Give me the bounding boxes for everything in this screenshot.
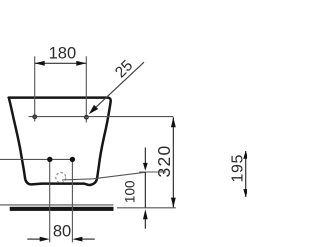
- svg-text:100: 100: [123, 181, 138, 204]
- dim 195: arrow down: [243, 189, 248, 197]
- dim 195: dimension line: [245, 151, 247, 197]
- leader line for 25: [94, 62, 145, 109]
- hole mark left: [33, 115, 36, 118]
- dim 80: extension line left: [49, 162, 51, 242]
- dim 180: arrow right: [76, 61, 86, 66]
- floor line thin: [0, 204, 114, 206]
- dim 180: dimension line: [35, 62, 87, 64]
- floor section bar: [10, 207, 114, 211]
- dim 100: top outside arrow head: [143, 163, 148, 171]
- dim 180: extension line left: [34, 56, 36, 121]
- dim 195: arrow up: [243, 151, 248, 159]
- dim 320: arrow down: [171, 198, 176, 208]
- dim 100: top outside arrow shaft: [144, 148, 146, 165]
- body outline (toilet pan front view): [9, 98, 111, 185]
- slanted pointer line from circle to 100-dim: [62, 172, 145, 180]
- dim 180: extension line right: [85, 56, 87, 122]
- dim 80: left arrow head: [40, 237, 50, 242]
- supply dots reference line y=159.4: [0, 158, 72, 160]
- hole mark right: [85, 116, 88, 119]
- leader arrow 25: [89, 105, 99, 114]
- svg-text:80: 80: [53, 222, 71, 240]
- drain dashed circle: [56, 173, 66, 183]
- dim 100: bottom outside arrow shaft: [144, 216, 146, 229]
- dim 100: bottom reference line: [117, 207, 176, 209]
- fixing dot right: [70, 157, 75, 162]
- dim 180: arrow left: [35, 61, 45, 66]
- dim 100: bottom outside arrow head: [143, 209, 148, 219]
- svg-text:320: 320: [154, 144, 174, 177]
- dim 80: right arrow head: [72, 237, 82, 242]
- svg-text:180: 180: [49, 45, 77, 63]
- svg-text:195: 195: [229, 154, 246, 183]
- dim 320: dimension line: [172, 117, 174, 207]
- dim 100: vertical line between refs: [144, 172, 146, 208]
- hole reference line y=116.6: [29, 116, 174, 118]
- dim 80: right arrow shaft: [81, 238, 95, 240]
- dim 80: left arrow shaft: [27, 238, 41, 240]
- dim 100: top reference line: [139, 171, 166, 173]
- dim 320: arrow up: [171, 117, 176, 127]
- fixing dot left: [47, 157, 52, 162]
- dim 80: extension line right: [71, 162, 73, 242]
